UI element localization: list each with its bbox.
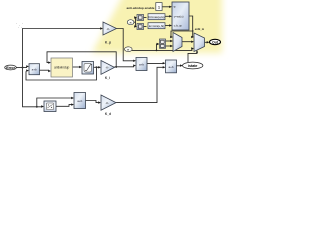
block sb1 (137, 15, 144, 21)
junction dot A (22, 67, 24, 69)
wire sat to Ki (94, 66, 100, 68)
block wide1 (148, 14, 165, 20)
wire rise from istate to T2 bottom (188, 51, 197, 62)
annotation anti-windup enable + const block (126, 3, 162, 11)
wire wide1 to big block (165, 15, 171, 17)
block d1 unit delay (44, 101, 56, 112)
svg-text:lo=min(u,hi): lo=min(u,hi) (149, 24, 164, 28)
svg-text:Out: Out (212, 40, 219, 44)
block sumA (136, 58, 147, 71)
big block saturation dynamic (172, 2, 189, 30)
wire circleA out under T1 to T2 in3 (132, 49, 193, 51)
svg-text:a+b: a+b (32, 68, 37, 72)
wire d1 out to b2 in2 (56, 105, 72, 107)
svg-text:K_i: K_i (105, 76, 110, 80)
gain Kd (101, 95, 116, 116)
block sb2 (137, 24, 144, 30)
svg-text:anti-windup enable: anti-windup enable (126, 6, 154, 10)
wire big block out loop to T1 in1 and T2 in1 (171, 16, 193, 37)
svg-text:a+b: a+b (168, 65, 173, 69)
wire antiwindup to sat (73, 66, 81, 68)
wire wide2 to big block (165, 25, 171, 27)
svg-text:-K-: -K- (106, 101, 110, 105)
svg-text:K_d: K_d (105, 112, 111, 116)
output oval Out (210, 39, 221, 44)
output oval istate (183, 62, 203, 69)
wire b2 out to gainD (86, 101, 100, 103)
block sumB (166, 60, 177, 73)
wire Kp out corner down to circleA (117, 29, 135, 61)
wire m1 out2 to T1 in3 (166, 45, 172, 47)
yellow highlight blob (92, 0, 222, 53)
svg-text:u: u (174, 5, 176, 9)
wire Error to sum1 with junction (16, 67, 27, 69)
svg-text:enbl_m: enbl_m (195, 27, 205, 31)
svg-text:y=sat(u): y=sat(u) (174, 14, 184, 18)
block wide2 (148, 23, 165, 29)
junction dot bottom (36, 106, 38, 108)
wire T1 out to T2 in2 (182, 41, 193, 43)
wire sumA to sumB (147, 63, 164, 65)
wire junction down to bottom row (23, 68, 43, 107)
wire circleB out split to sb1 sb2 (134, 18, 136, 27)
svg-text:-K-: -K- (107, 27, 111, 31)
wire m1 out1 to T1 in2 (166, 40, 172, 42)
block sum1 (29, 64, 40, 75)
svg-text:n: n (127, 48, 129, 52)
mux T1 (173, 33, 182, 52)
wire riser to m1 input (157, 44, 159, 50)
gain Ki (101, 61, 115, 81)
svg-text:a+b: a+b (77, 99, 82, 103)
svg-text:hi=max(u,lo): hi=max(u,lo) (149, 15, 165, 19)
faint annotation speckle top-left (16, 23, 23, 28)
wire const to big block (162, 6, 170, 8)
gain Kp (103, 22, 117, 45)
wire Ki out to sumA in2 (115, 66, 135, 68)
wire gainD out up to sumB in2 (116, 67, 164, 102)
from tag circleA (125, 47, 133, 52)
wire sb2 to wide2 (144, 26, 147, 28)
junction dot loop (192, 30, 194, 32)
junction dot Ki tap (115, 66, 117, 68)
svg-text:1: 1 (158, 5, 160, 9)
svg-text:n: n (130, 21, 132, 25)
block antiwindup (yellow) (51, 58, 73, 77)
mux T2 (194, 33, 205, 52)
wire Ki-out tap up and left to antiwindup in1 (47, 52, 116, 67)
svg-text:K_p: K_p (105, 41, 111, 45)
svg-text:a+b: a+b (139, 62, 144, 66)
wire junction up to Kp (23, 29, 102, 68)
arrowheads (26, 6, 209, 108)
svg-text:Error: Error (6, 66, 15, 70)
svg-text:antiwindup: antiwindup (54, 66, 69, 70)
svg-text:istate: istate (188, 64, 197, 68)
from tag circleB (127, 20, 134, 25)
junction dot sat out (96, 66, 98, 68)
wire feedback into sum1 port2 (26, 67, 97, 80)
wire sumB out to istate oval (177, 65, 182, 67)
input port oval Error (5, 65, 17, 70)
wire sum1 out to antiwindup in2 (40, 69, 50, 71)
wire bottom branch up to b2 in1 (37, 98, 72, 107)
svg-text:u,lo,up: u,lo,up (174, 24, 183, 28)
wire T2 out to Out oval (205, 41, 209, 43)
block saturation (82, 62, 94, 75)
svg-text:-K-: -K- (106, 66, 110, 70)
block b2 (74, 93, 86, 109)
wire sb1 to wide1 (144, 17, 147, 19)
block m1 (160, 39, 166, 48)
